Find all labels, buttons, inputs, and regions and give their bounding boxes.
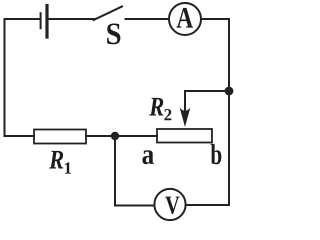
- switch S blade: [94, 7, 123, 21]
- svg-text:a: a: [142, 139, 155, 171]
- rheostat R2 body: [157, 129, 212, 143]
- rheostat slider shaft: [184, 91, 186, 112]
- svg-text:A: A: [176, 2, 193, 35]
- wire top-left segment and left vertical down to R1: [5, 19, 41, 136]
- wire R1 to rheostat (node junction row): [86, 135, 157, 137]
- node junction dot at R1/R2/voltmeter: [111, 132, 119, 140]
- ammeter U1 circle: [169, 3, 201, 35]
- svg-text:1: 1: [64, 159, 73, 178]
- wire switch to ammeter: [126, 18, 169, 20]
- svg-text:V: V: [165, 191, 180, 220]
- slider arrowhead: [180, 108, 191, 128]
- wire ammeter to right corner: [201, 18, 229, 20]
- wire voltmeter branch bottom left: [115, 205, 154, 207]
- battery: [41, 6, 47, 38]
- wire voltmeter to right corner: [186, 204, 229, 206]
- resistor R1 body: [34, 130, 86, 144]
- rheostat slider branch wire to right vertical: [185, 90, 229, 92]
- wire right vertical: [228, 19, 230, 205]
- node junction dot at right wire: [225, 87, 234, 96]
- svg-text:b: b: [210, 139, 222, 171]
- svg-text:2: 2: [164, 105, 173, 124]
- svg-text:R: R: [48, 145, 64, 175]
- voltmeter U2 circle: [154, 189, 185, 220]
- svg-text:R: R: [148, 92, 164, 122]
- svg-text:S: S: [106, 16, 122, 51]
- wire battery to switch: [49, 18, 94, 20]
- wire voltmeter branch left vertical: [114, 136, 116, 206]
